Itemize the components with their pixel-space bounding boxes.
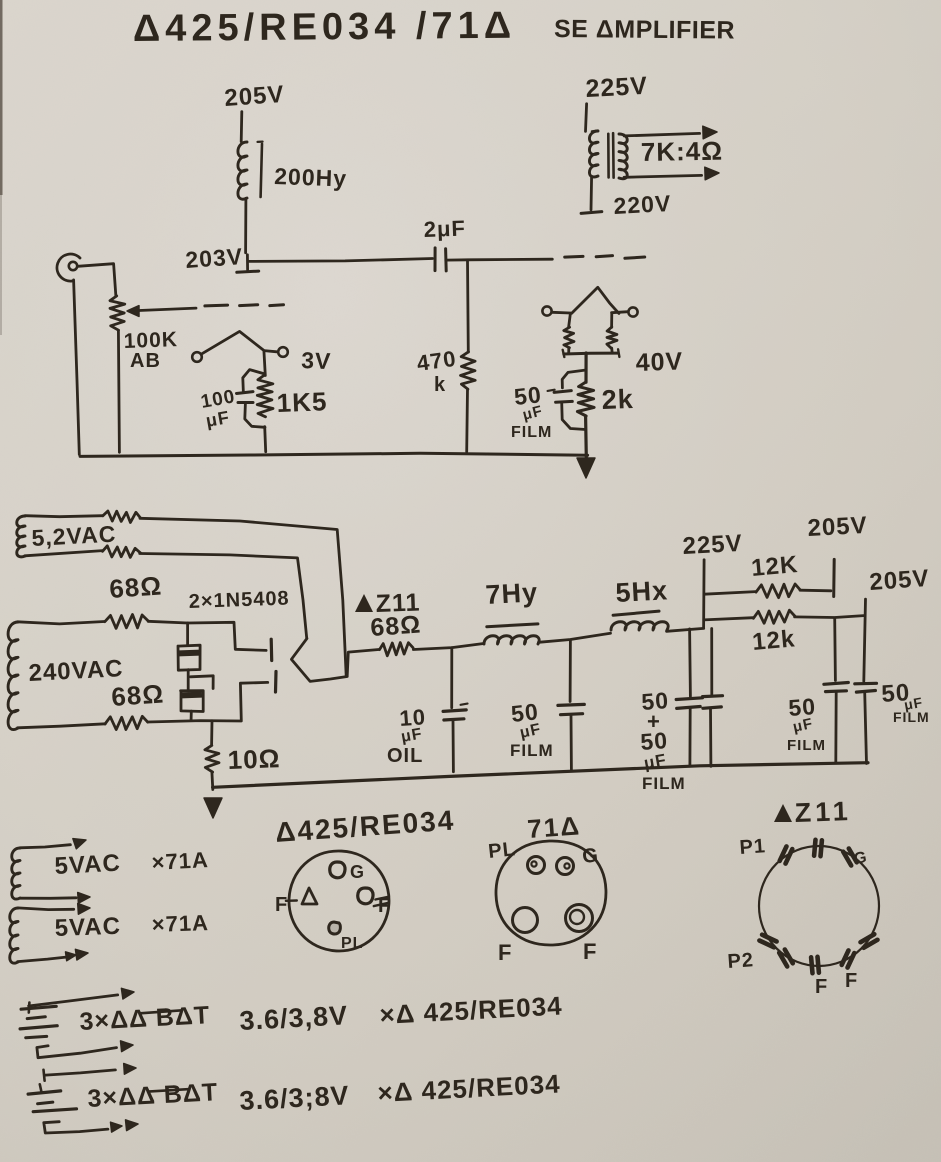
wire PSU ground rail	[213, 763, 868, 788]
label 12k bottom	[751, 625, 796, 656]
label 2uF	[423, 216, 466, 242]
capacitor 50uF film A	[558, 704, 584, 714]
socket AZ11 pin right	[861, 934, 878, 948]
wire 240VAC top	[18, 622, 105, 624]
socket A425 pin right	[358, 888, 373, 904]
svg-text:225V: 225V	[682, 530, 743, 560]
label 1K5	[276, 386, 328, 418]
socket 71A pin top2	[557, 858, 574, 875]
capacitor 50uF cathode	[548, 370, 586, 430]
winding 5VAC 1	[12, 848, 20, 899]
svg-text:PL: PL	[487, 838, 517, 863]
socket AZ11 label F2	[845, 970, 858, 992]
OT secondary lead top	[624, 126, 717, 139]
capacitor 50uF film B	[824, 683, 848, 692]
label 2x1N5408	[188, 587, 290, 613]
wire 7Hy to 5Hx	[539, 633, 611, 642]
wire pot to rail	[118, 330, 119, 452]
socket AZ11 pin P1	[780, 846, 793, 863]
capacitor 2uF	[435, 248, 446, 271]
wire V1 cathode	[264, 351, 265, 376]
resistor 12K top	[756, 584, 800, 598]
socket AZ11 pin Fb	[842, 950, 855, 967]
wire cathode to ground	[584, 417, 588, 458]
svg-text:FILM: FILM	[510, 741, 554, 760]
tube V2 filament left	[564, 313, 574, 353]
socket A425 pin left	[302, 888, 317, 904]
tube V2 pin right	[628, 307, 637, 316]
battery B2 bottom lead	[44, 1120, 138, 1133]
svg-text:SE ΔMPLIFIER: SE ΔMPLIFIER	[554, 15, 735, 45]
socket AZ11 pin P2b	[779, 950, 793, 967]
winding 240VAC	[8, 622, 18, 730]
wire 5VAC2 bottom	[18, 949, 88, 961]
svg-text:F: F	[815, 976, 828, 998]
label 470k	[415, 346, 458, 396]
wire 225V to OT	[586, 104, 587, 132]
svg-text:F: F	[845, 970, 858, 992]
svg-text:10Ω: 10Ω	[227, 743, 281, 775]
svg-text:5VAC: 5VAC	[54, 913, 121, 942]
socket A425 label F left	[275, 894, 297, 916]
svg-text:FILM: FILM	[642, 774, 686, 793]
wire V2 cathode	[584, 353, 587, 382]
rectifier AZ11 filament	[291, 639, 347, 682]
svg-text:5VAC: 5VAC	[54, 850, 122, 880]
tube V1 grid pin	[192, 352, 202, 362]
svg-text:3.6/3;8V: 3.6/3;8V	[239, 1080, 350, 1116]
wire 2uF to right	[446, 258, 553, 262]
label 50uF FILM	[511, 381, 552, 441]
node 205V right label	[869, 565, 931, 596]
label 40V	[635, 347, 683, 377]
wire 1K5 to rail	[265, 427, 266, 452]
svg-text:220V: 220V	[613, 190, 672, 219]
label 10R	[227, 743, 281, 775]
node 205V top bar	[832, 559, 836, 596]
svg-text:200Hy: 200Hy	[274, 163, 348, 192]
svg-text:F: F	[275, 894, 288, 916]
choke 7Hy	[484, 624, 539, 644]
socket AZ11 pin top	[814, 840, 822, 856]
wire jack ground	[74, 280, 80, 455]
wire cap dual right	[710, 629, 713, 696]
tube V1 pin right	[278, 347, 288, 357]
label xA425 2	[377, 1068, 562, 1108]
svg-text:3V: 3V	[301, 347, 332, 374]
svg-text:FILM: FILM	[511, 424, 552, 441]
wire 5.2VAC top	[25, 516, 103, 517]
wire jack to pot	[78, 264, 116, 297]
svg-text:3.6/3,8V: 3.6/3,8V	[239, 1000, 349, 1036]
socket 71A outline	[494, 839, 608, 947]
label 5.2VAC	[31, 521, 117, 551]
tube V1 envelope	[202, 331, 277, 354]
socket AZ11 label P1	[739, 835, 767, 859]
socket 71A pin top1	[528, 857, 545, 874]
socket AZ11 outline	[759, 846, 879, 966]
socket 71A label G	[581, 844, 600, 868]
wire 205V to choke	[240, 112, 243, 142]
svg-text:205V: 205V	[869, 565, 931, 596]
svg-text:203V: 203V	[185, 243, 244, 273]
label 5Hx	[615, 575, 669, 608]
label 220V	[613, 190, 672, 219]
svg-text:F: F	[498, 940, 512, 965]
wire 225V vertical	[702, 560, 705, 628]
capacitor 50uF film C	[855, 683, 877, 692]
diode D1 1N5408	[178, 623, 200, 670]
socket A425 pin G	[330, 862, 345, 878]
svg-text:68Ω: 68Ω	[108, 570, 163, 604]
svg-text:68Ω: 68Ω	[369, 611, 422, 642]
socket A425 pin PL	[329, 922, 341, 934]
svg-text:k: k	[434, 374, 446, 396]
tube V1 plate terminal	[237, 255, 259, 272]
label 68R AZ11	[369, 611, 422, 642]
svg-text:G: G	[581, 844, 600, 868]
socket 71A pin bot1	[513, 908, 538, 933]
wire rail to 10R	[210, 721, 213, 745]
choke L1 200Hy	[238, 142, 263, 200]
tube V2 filament right	[607, 313, 617, 353]
resistor 5.2VAC bottom lead	[103, 546, 141, 558]
svg-text:×71A: ×71A	[151, 910, 209, 937]
transformer OT core	[608, 133, 613, 177]
label 50uF film B	[787, 693, 826, 754]
socket A425 label G	[350, 862, 365, 882]
wire 10R to ground rail	[210, 772, 214, 790]
winding 5VAC 2	[10, 908, 18, 963]
resistor 68R bottom	[105, 716, 148, 729]
socket 71A title	[526, 810, 582, 844]
wire 240VAC bottom	[18, 724, 106, 728]
svg-text:2k: 2k	[601, 384, 634, 415]
wire OT primary bottom	[590, 176, 593, 209]
svg-text:71Δ: 71Δ	[526, 810, 582, 844]
OT secondary lead bottom	[624, 167, 719, 180]
svg-text:G: G	[350, 862, 365, 882]
resistor 68R top	[105, 615, 149, 629]
tube V2 pin stub left	[552, 311, 570, 315]
label 3.6V 1	[239, 1000, 349, 1036]
label 68R bottom	[110, 678, 165, 712]
socket A425 label F right	[374, 895, 391, 917]
socket AZ11 label G	[853, 849, 869, 868]
socket AZ11 pin F bottom	[811, 957, 819, 973]
svg-text:12K: 12K	[750, 551, 799, 582]
wire 12K top to 205V	[800, 589, 831, 592]
wire 225V to 12k bottom	[704, 618, 753, 620]
socket 71A pin bot2	[566, 905, 593, 932]
svg-text:μF: μF	[204, 407, 231, 431]
winding 5.2VAC	[17, 516, 25, 557]
wire B+ to 7Hy	[413, 644, 482, 650]
wire D2 to bottom rail	[190, 711, 193, 720]
svg-text:205V: 205V	[224, 81, 286, 112]
socket 71A label PL	[487, 838, 517, 863]
svg-text:7K:4Ω: 7K:4Ω	[641, 136, 724, 167]
choke 5Hx	[611, 611, 668, 630]
resistor 12k bottom	[753, 610, 795, 623]
label 50+50uF	[640, 687, 686, 793]
resistor 470k	[461, 352, 476, 389]
label 7K:4ohm	[641, 136, 724, 167]
wire 225V to 12K top	[704, 592, 756, 595]
socket AZ11 pin P2 side	[759, 935, 776, 948]
dashed wire to output stage	[565, 256, 645, 259]
wire cap50a to ground	[570, 715, 573, 769]
node 205V top label	[807, 512, 868, 542]
wire 5VAC1 bottom	[20, 893, 90, 904]
battery B1 top lead	[29, 988, 134, 1012]
potentiometer 100K AB	[110, 296, 125, 330]
transformer OT secondary	[619, 134, 627, 179]
resistor 10R	[205, 745, 219, 772]
wire cap dual right ground	[709, 708, 712, 766]
svg-text:μF: μF	[642, 750, 668, 773]
label AZ11	[355, 588, 421, 618]
label 50uF film A	[510, 698, 554, 760]
resistor 5.2VAC top lead	[103, 511, 141, 523]
svg-text:P2: P2	[727, 949, 755, 973]
socket AZ11 label F1	[815, 976, 828, 998]
wire cap50c ground	[865, 692, 867, 764]
label 10uF OIL	[387, 704, 427, 767]
svg-text:AB: AB	[130, 350, 161, 372]
wire ground rail stage1	[80, 453, 587, 456]
capacitor 10uF OIL	[443, 704, 467, 720]
label 100K AB	[123, 328, 178, 372]
svg-text:PL: PL	[341, 935, 363, 952]
node 225V label psu	[682, 530, 743, 560]
socket A425 title	[274, 804, 456, 847]
label 100uF	[199, 386, 237, 431]
wire cap dual left ground	[689, 708, 692, 766]
svg-text:5,2VAC: 5,2VAC	[31, 521, 117, 551]
label 3.6V 2	[239, 1080, 350, 1116]
wire top to diode and plate	[148, 621, 266, 650]
battery B1 bottom lead	[37, 1041, 133, 1058]
wire 5Hx to 225V node	[667, 628, 704, 631]
socket A425 label PL	[341, 935, 363, 952]
label 12K top	[750, 551, 799, 582]
socket AZ11 pin G	[843, 849, 857, 866]
svg-text:Z11: Z11	[794, 796, 852, 828]
wire cap50c	[864, 599, 866, 681]
svg-text:12k: 12k	[751, 625, 796, 656]
ground arrow PSU	[204, 798, 222, 818]
label xA425 1	[379, 990, 564, 1030]
wire cap dual left	[688, 629, 692, 697]
battery B2 cells	[28, 1084, 76, 1111]
svg-text:5Hx: 5Hx	[615, 575, 669, 608]
tube V2 grid pin	[542, 306, 551, 315]
label 50uF film C	[881, 679, 930, 725]
wire bottom to plate2	[148, 682, 268, 722]
svg-text:7Hy: 7Hy	[485, 577, 539, 610]
svg-text:P1: P1	[739, 835, 767, 859]
label 68R top	[108, 570, 163, 604]
wire 470k to rail	[465, 389, 469, 452]
dashed grid wire	[205, 305, 284, 306]
svg-text:×71A: ×71A	[151, 847, 209, 875]
label 3xAA BAT 1	[79, 1001, 211, 1036]
ground arrow stage1	[577, 458, 595, 478]
svg-text:FILM: FILM	[893, 709, 930, 725]
tube V2 base	[563, 349, 620, 357]
tube V2 pin stub right	[612, 312, 629, 313]
svg-text:FILM: FILM	[787, 737, 826, 754]
svg-text:40V: 40V	[635, 347, 683, 377]
node 205V label	[224, 81, 286, 112]
label 2k	[601, 384, 634, 415]
svg-text:68Ω: 68Ω	[110, 678, 165, 712]
wire 203V rail	[249, 259, 432, 262]
label 200Hy	[274, 163, 348, 192]
AZ11 plate1 bar	[270, 639, 274, 660]
wire 5.2VAC top to AZ11	[140, 518, 346, 676]
node 203V label	[185, 243, 244, 273]
wire D1 to D2	[187, 670, 190, 691]
svg-text:OIL: OIL	[387, 745, 423, 767]
label 3xAA BAT 2	[87, 1078, 219, 1113]
wire 10uF to ground	[452, 720, 455, 772]
svg-text:240VAC: 240VAC	[28, 655, 124, 687]
wire junction to 470k	[466, 260, 470, 352]
socket AZ11 label P2	[727, 949, 755, 973]
svg-text:Δ425/RE034 /71Δ: Δ425/RE034 /71Δ	[133, 5, 517, 50]
socket A425 outline	[286, 848, 391, 953]
capacitor 50+50 left plates	[676, 698, 702, 709]
AZ11 plate2 bar	[274, 672, 278, 693]
resistor 68R AZ11	[380, 643, 414, 656]
input jack J1	[57, 254, 80, 281]
svg-text:205V: 205V	[807, 512, 868, 542]
svg-text:2μF: 2μF	[423, 216, 466, 242]
socket AZ11 title	[774, 796, 852, 828]
photo edge left	[0, 0, 3, 195]
svg-text:1K5: 1K5	[276, 386, 328, 418]
wire 12k to 205V right	[795, 616, 864, 618]
wire junction to cap50a	[569, 640, 572, 702]
battery B1 cells	[20, 1006, 57, 1037]
battery B2 top lead	[44, 1064, 137, 1081]
pot wiper arrow	[127, 306, 196, 317]
resistor 1K5	[257, 375, 273, 417]
transformer OT primary	[589, 131, 598, 177]
svg-text:2×1N5408: 2×1N5408	[188, 587, 290, 613]
wire 5VAC1 top	[20, 839, 86, 849]
title text	[133, 5, 735, 50]
resistor 2k	[577, 382, 594, 416]
svg-text:F: F	[583, 939, 597, 964]
wire cap50b	[833, 618, 837, 681]
svg-text:225V: 225V	[585, 72, 649, 103]
wire diode junction hook	[191, 676, 214, 689]
wire 5.2VAC bottom	[25, 551, 103, 556]
label 7Hy	[485, 577, 539, 610]
wire 5VAC2 top	[18, 904, 90, 915]
wire AZ11 cathode out	[347, 650, 379, 677]
wire cap50b ground	[834, 692, 837, 762]
label 240VAC	[28, 655, 124, 687]
label 5VAC x71A second	[54, 910, 209, 942]
capacitor 100uF branch	[237, 370, 266, 428]
capacitor 50+50 right plates	[703, 696, 723, 709]
tube V2 plate terminal	[581, 212, 602, 214]
diode D2 1N5408	[181, 691, 204, 712]
wire 5.2VAC bottom to AZ11	[140, 554, 307, 639]
node 225V label top	[585, 72, 649, 103]
socket 71A label F right	[583, 939, 597, 964]
label 5VAC x71A first	[54, 847, 210, 880]
label 3V	[301, 347, 332, 374]
socket 71A label F left	[498, 940, 512, 965]
tube V2 envelope	[572, 287, 619, 313]
wire choke to 203V node	[244, 198, 247, 252]
wire B+ to 10uF	[450, 648, 453, 708]
